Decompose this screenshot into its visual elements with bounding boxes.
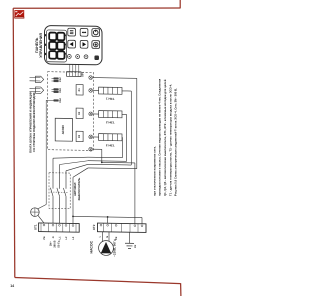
heater TEN2 <box>99 111 122 118</box>
button left arrow <box>68 40 76 48</box>
svg-text:L1: L1 <box>59 236 62 240</box>
wire bus L1 horizontal <box>88 156 122 159</box>
LCD unit icon 1 <box>65 35 66 37</box>
board terminal TEN2 <box>89 112 93 116</box>
indicator lamp 2 <box>76 55 80 59</box>
connector XP2/XS2 sensor T1 <box>30 77 36 79</box>
svg-text:РЕ: РЕ <box>115 236 118 240</box>
svg-text:380 В: 380 В <box>53 240 57 247</box>
terminal strip XT2 <box>98 223 147 232</box>
wire N leg <box>72 177 74 216</box>
svg-text:L: L <box>99 235 102 237</box>
svg-text:СО СТОРОНЫ ПОДКЛЮЧЕНИЯ ПРОВОДО: СО СТОРОНЫ ПОДКЛЮЧЕНИЯ ПРОВОДОВ <box>32 92 36 152</box>
terminal strip XT1 <box>39 223 80 232</box>
wire TEN2 right <box>122 113 127 115</box>
ground stem <box>129 232 131 243</box>
PE bolt symbol <box>31 208 40 217</box>
junction N2 <box>107 216 109 218</box>
heater TEN3 <box>99 134 122 141</box>
svg-text:L3: L3 <box>72 236 75 240</box>
wire bus L3 horizontal <box>88 163 131 166</box>
wire bus N horizontal <box>88 167 137 170</box>
LCD digit 8 #3 <box>49 51 56 59</box>
svg-text:УПРАВЛЕНИЯ: УПРАВЛЕНИЯ <box>39 33 43 58</box>
control panel outline <box>45 25 103 64</box>
svg-text:ВЫКЛЮЧАТЕЛЬ: ВЫКЛЮЧАТЕЛЬ <box>77 178 81 201</box>
publisher logo <box>14 10 24 18</box>
svg-text:проводов питания и насоса. Сеч: проводов питания и насоса. Сечение медны… <box>158 78 162 196</box>
page frame top line <box>13 7 180 9</box>
connector XS4 pin <box>54 100 59 102</box>
svg-text:ТЭН 3: ТЭН 3 <box>106 143 115 147</box>
svg-text:14: 14 <box>10 284 14 288</box>
svg-text:ХS4: ХS4 <box>59 98 62 103</box>
board terminal feed <box>89 76 93 80</box>
relay K2 <box>76 108 83 119</box>
wire bus L3 diagonal <box>66 164 88 171</box>
svg-text:АС030: АС030 <box>61 125 65 135</box>
wire feed top <box>93 77 137 80</box>
svg-text:N: N <box>106 236 109 238</box>
svg-text:К3: К3 <box>77 134 81 138</box>
panel cable wires <box>69 64 71 71</box>
page frame left line <box>13 8 15 277</box>
breaker linkage <box>51 191 69 193</box>
page frame right bottom segment <box>180 283 182 296</box>
indicator lamp 3 <box>84 55 88 59</box>
button power <box>92 29 100 37</box>
svg-text:L2: L2 <box>65 236 68 240</box>
page frame right top segment <box>179 0 181 8</box>
junction N <box>72 215 74 217</box>
board terminal pump <box>89 147 93 151</box>
wire N horizontal low <box>73 216 142 217</box>
svg-text:Рисунок 5.6 Схема электрическа: Рисунок 5.6 Схема электрическая соединен… <box>174 88 178 196</box>
wire bus L2 diagonal <box>60 160 89 165</box>
connector XP1 comb <box>67 72 81 77</box>
svg-text:РЕ: РЕ <box>43 236 46 240</box>
svg-text:ХS2: ХS2 <box>59 77 62 82</box>
pump symbol <box>99 241 114 256</box>
relay K1 <box>76 85 83 96</box>
button right arrow <box>80 40 88 48</box>
LCD digit 8 #1 <box>49 33 56 41</box>
PE chassis wire <box>45 100 47 204</box>
svg-text:ХS3: ХS3 <box>59 88 62 93</box>
breaker pole 3 <box>65 171 67 189</box>
breaker pole 2 <box>59 164 61 188</box>
wire feed vertical <box>136 78 138 168</box>
connector XP3/XS3 sensor T2 <box>30 87 36 89</box>
wire pump <box>93 148 102 150</box>
wire TEN1 right <box>122 90 131 92</box>
LCD unit icon 3 <box>65 53 66 55</box>
junction pump corner <box>101 161 103 163</box>
button ok <box>92 41 100 49</box>
svg-text:3N~: 3N~ <box>49 241 53 246</box>
svg-text:при отключенном напряжении сет: при отключенном напряжении сети. <box>152 146 156 196</box>
wire bus L1 diagonal <box>53 157 88 159</box>
board terminal TEN3 <box>89 135 93 139</box>
button mode <box>80 28 88 36</box>
wire bus N diagonal <box>73 168 88 178</box>
svg-text:50 Гц: 50 Гц <box>57 240 61 247</box>
svg-text:~220В, 50Гц: ~220В, 50Гц <box>113 239 117 257</box>
indicator lamp 1 <box>67 55 71 59</box>
board dashed outline <box>48 72 94 151</box>
wire TEN3 right <box>121 136 123 138</box>
pump stems <box>102 232 104 242</box>
svg-text:ТЭН 1: ТЭН 1 <box>106 97 115 101</box>
svg-text:Т1 - датчик температуры котла,: Т1 - датчик температуры котла, Т2 - датч… <box>168 84 172 196</box>
svg-text:НАСОС: НАСОС <box>90 240 94 253</box>
svg-text:ХТ2: ХТ2 <box>92 224 96 230</box>
heater TEN1 <box>99 87 122 94</box>
breaker pole 1 <box>52 158 54 188</box>
LCD side icon 3 <box>45 53 46 55</box>
relay K3 <box>76 131 83 142</box>
module AC030 <box>55 118 72 141</box>
svg-text:ТЭН 2: ТЭН 2 <box>106 120 115 124</box>
svg-text:К1: К1 <box>77 88 81 92</box>
svg-text:РЕ: РЕ <box>134 244 137 248</box>
wire N drop XT2-5 <box>141 217 143 223</box>
wire bus L2 horizontal <box>88 160 127 163</box>
page frame bottom line <box>15 278 181 284</box>
breaker dashed box <box>49 173 70 209</box>
wire N drop XT2-1 <box>107 217 109 223</box>
svg-text:Q1, Q2, Q3 - автоматические вы: Q1, Q2, Q3 - автоматические выключатели,… <box>163 79 167 196</box>
wire N to XT1 <box>72 216 74 223</box>
PE wire to XT1 <box>38 215 44 223</box>
LCD unit icon 2 <box>65 44 66 46</box>
LCD digit 8 #2 <box>49 42 56 50</box>
svg-text:К2: К2 <box>77 111 81 115</box>
board terminal TEN1 <box>89 88 93 92</box>
LCD bezel <box>47 30 67 62</box>
ground symbol <box>125 242 134 244</box>
LCD side icon 1 <box>45 34 46 36</box>
svg-text:N: N <box>52 236 55 238</box>
LCD side icon 2 <box>45 44 46 46</box>
svg-text:ХТ1: ХТ1 <box>34 224 38 230</box>
button menu <box>68 28 76 36</box>
indicator square <box>95 56 99 60</box>
